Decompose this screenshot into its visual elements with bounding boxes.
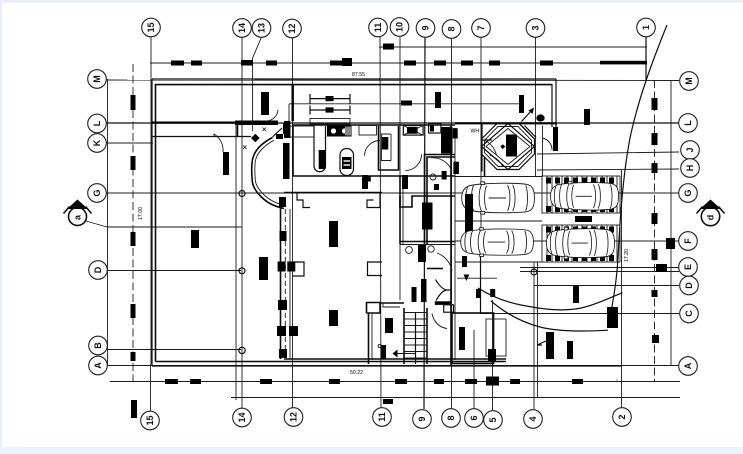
grid line B left (107, 349, 241, 351)
garden black bar 3 (573, 285, 579, 303)
pad 1 slats (547, 176, 617, 213)
door x marker 2 (263, 128, 267, 132)
car bay divider line (455, 176, 542, 178)
svg-text:H: H (685, 165, 695, 172)
garage divider bottom (293, 175, 455, 177)
pantry room outline (379, 126, 399, 170)
column K12 (276, 134, 283, 139)
wc door arc (437, 253, 452, 271)
svg-text:G: G (92, 189, 102, 196)
garden S curve lower (491, 301, 608, 331)
arc ledge (481, 139, 492, 141)
west wall vertical inner (289, 209, 291, 359)
bubble M right (680, 72, 699, 91)
grid line 7 vertical (480, 37, 482, 250)
octagon diamond inner (486, 129, 530, 165)
wc black small (418, 245, 426, 262)
kitchen counter left (290, 126, 314, 137)
interior column b (329, 310, 338, 326)
bubble A left (89, 356, 108, 375)
entry door cusp tick (447, 289, 451, 291)
column D line (259, 257, 268, 280)
west curved bay inner (255, 140, 285, 205)
bubble 10 top (390, 18, 409, 37)
wh black (453, 128, 458, 138)
pier arrow (464, 275, 470, 282)
bubble 3 top (526, 19, 545, 38)
pad 1 hatch top (546, 178, 614, 184)
grid line 9 vertical (424, 37, 425, 409)
step at D right (368, 262, 383, 276)
bay jamb diagonal (273, 128, 283, 137)
svg-text:C: C (684, 310, 694, 317)
west wall chunk 2 (280, 231, 287, 241)
bubble C right (680, 304, 699, 323)
garden black bar 4 (476, 289, 481, 298)
left bubble spine (107, 79, 109, 366)
entry porch steps (486, 319, 506, 356)
car B pier black (462, 256, 467, 267)
svg-text:12: 12 (287, 23, 297, 33)
stair left rail (403, 308, 405, 364)
svg-text:8: 8 (447, 26, 457, 31)
canopy rect above kitchen (310, 119, 350, 125)
pad edge door arc (543, 138, 553, 150)
garden black bar 1 (546, 332, 554, 359)
svg-text:E: E (683, 264, 693, 270)
bubble 5 bottom (484, 411, 503, 430)
west wall chunk pair D2 (287, 262, 295, 272)
bay door x marker (243, 146, 247, 150)
bubble F right (679, 232, 698, 251)
right dash-dot dashes (652, 98, 668, 343)
bottom road dash (383, 399, 393, 404)
bubble J right (681, 141, 700, 160)
svg-text:17.20: 17.20 (624, 249, 630, 262)
car C body (550, 181, 618, 211)
bubble L left (88, 114, 107, 133)
west wall chunk 4 (277, 326, 286, 336)
grid line A horizontal (107, 365, 679, 367)
bubble D left (89, 261, 108, 280)
bath walls (425, 155, 456, 245)
hall east wall (399, 176, 401, 244)
west wall glass line (284, 209, 286, 359)
entry door cusp arcs (436, 280, 447, 301)
bottom boundary dash-dot line (110, 381, 680, 383)
pad 1 hatch bottom (546, 206, 614, 212)
top area dash (401, 101, 412, 106)
grid line J horizontal (537, 152, 679, 154)
svg-text:A: A (93, 362, 103, 369)
bubble 12 bottom (284, 408, 303, 427)
stair black c (412, 287, 417, 302)
kitchen black bar (319, 150, 326, 169)
svg-text:14: 14 (237, 23, 247, 33)
ne door arc 2 (490, 155, 504, 167)
kitchen north wall (293, 124, 455, 126)
survey circle E-right (531, 269, 537, 275)
garden black bar 2 (567, 341, 573, 359)
car bay divider line 3 (455, 261, 542, 263)
east wall double (450, 125, 452, 365)
ne small diamond (500, 144, 505, 149)
bubble 8 bottom (442, 409, 461, 428)
survey circle pads (616, 379, 618, 381)
wc fixture 2 (428, 246, 434, 252)
bubble A right (679, 357, 698, 376)
section marker d (697, 200, 725, 226)
house bottom wall (284, 358, 506, 360)
stair black b (381, 345, 386, 359)
bubble 8 top (442, 20, 461, 39)
bubble 12 top (283, 19, 302, 38)
compound wall right-top return 2 (555, 79, 557, 127)
east wall inner (454, 128, 456, 360)
porch black b (488, 349, 496, 362)
laundry right wall (484, 157, 486, 177)
west wall chunk B (279, 349, 287, 358)
svg-text:13: 13 (257, 23, 267, 33)
bath fixture 3 (434, 184, 439, 190)
grid line 14 vertical (241, 37, 243, 408)
west wall chunk pair D (278, 262, 286, 272)
bubble G left (88, 184, 107, 203)
top datum line (379, 46, 647, 48)
living room top wall (284, 192, 382, 194)
bubble L right (679, 114, 698, 133)
left dash-dot vertical (132, 64, 134, 381)
wall segment 12 thick (292, 84, 294, 121)
stair arrow (415, 312, 417, 364)
porte-cochere chevrons (522, 126, 537, 139)
porch edge line (537, 262, 539, 397)
grid line H horizontal (537, 169, 679, 170)
kitchen peninsula counter (314, 126, 326, 172)
car A body (462, 182, 535, 214)
survey circle D (239, 268, 245, 274)
compound wall bottom inner (156, 361, 507, 363)
pantry black (382, 137, 388, 150)
garage side door arc (266, 110, 278, 121)
garden black bar 5 (490, 289, 495, 297)
svg-text:7: 7 (476, 25, 486, 30)
west wall chunk 3 (278, 300, 287, 310)
bubble H right (681, 159, 700, 178)
bubble 14 top (233, 19, 252, 38)
svg-text:8: 8 (446, 415, 456, 420)
car bay divider line 2 (455, 220, 542, 222)
garage top wall thick (235, 121, 278, 126)
top datum dash (383, 44, 394, 50)
west big column (283, 143, 290, 179)
svg-text:D: D (93, 266, 103, 273)
terrace edge line (457, 277, 497, 279)
wall stub above garage (261, 92, 269, 115)
svg-text:17.00: 17.00 (138, 207, 144, 220)
living room notch left (297, 193, 310, 208)
ne bar 1 (519, 95, 524, 113)
pad 2 slats (547, 225, 617, 262)
left dash-dot dashes (131, 95, 138, 418)
west curved bay outer (252, 138, 284, 209)
bottom dash-dot dashes (165, 377, 583, 386)
pergola bar 1 (310, 94, 350, 104)
svg-text:K: K (92, 139, 102, 146)
compound wall right-top return (551, 84, 553, 127)
bubble B left (89, 336, 108, 355)
big black NE wall (441, 127, 453, 154)
grid line E double (520, 271, 679, 273)
svg-text:15: 15 (145, 415, 155, 425)
courtyard door arc (214, 134, 223, 152)
grid line 5 bottom stem (492, 300, 494, 410)
bubble 11 top (369, 18, 388, 37)
wc fixtures (406, 247, 413, 254)
stair black d (421, 279, 427, 302)
svg-text:D: D (684, 282, 694, 289)
bubble M left (88, 70, 107, 89)
step at D (293, 262, 305, 276)
bubble 14 bottom (233, 408, 252, 427)
bath fixture 2 (442, 171, 447, 180)
grid line 13 vertical (253, 37, 262, 131)
kitchen sink unit (327, 126, 352, 137)
interior door arc lobby (432, 314, 447, 329)
bubble 2 bottom (613, 408, 632, 427)
svg-text:F: F (683, 238, 693, 244)
kitchen black sq bottom (364, 177, 371, 182)
grid line 1 vertical (645, 37, 647, 81)
bubble 9 top (416, 19, 435, 38)
living room notch right (367, 193, 380, 208)
bubble 1 top (637, 18, 656, 37)
svg-text:J: J (685, 147, 695, 152)
bay hinge diamond (251, 134, 260, 143)
svg-text:2: 2 (617, 414, 627, 419)
wc black 2 (362, 175, 368, 189)
ne bar 2 (553, 127, 558, 151)
car A pier (465, 194, 473, 240)
car B body (461, 228, 534, 257)
svg-text:4: 4 (528, 416, 538, 421)
stair direction arrow (393, 350, 398, 358)
bubble 13 top (252, 19, 271, 38)
grid line M horizontal (106, 79, 679, 82)
bubble 15 bottom (141, 411, 160, 430)
svg-text:M: M (92, 75, 102, 83)
stair circle marker (378, 344, 381, 347)
porch black a (459, 327, 465, 350)
black col 8-line bottom (459, 327, 465, 350)
stair treads (404, 313, 427, 359)
laundry black (453, 162, 459, 174)
grid line 15 bottom stem (150, 364, 152, 411)
svg-text:12: 12 (289, 412, 299, 422)
svg-text:5: 5 (488, 417, 498, 422)
pergola bar 2 (310, 106, 350, 115)
west wall chunk G (279, 197, 286, 207)
bubble D right (680, 276, 699, 295)
survey circle B (239, 347, 245, 353)
pantry C counter (382, 134, 392, 161)
bath door arc (431, 158, 452, 171)
top dash-dot dashes (171, 58, 647, 66)
wc black (402, 175, 408, 189)
svg-text:B: B (93, 342, 103, 349)
hall south wall 2 (400, 244, 455, 246)
setback line 14b (235, 121, 237, 400)
octagon diamond (482, 124, 535, 170)
black on 5 line (488, 349, 496, 362)
svg-text:WH: WH (471, 129, 480, 135)
grid line D left (107, 270, 241, 272)
pad 2 hatch bottom (546, 255, 614, 261)
foyer inner wall (372, 303, 400, 360)
column left of garage door (223, 152, 229, 175)
pad 1 outline (542, 176, 620, 213)
grid line F horizontal (455, 240, 679, 242)
compound wall top outer (152, 78, 556, 80)
right bubble spine (670, 81, 672, 366)
stair arrow line (398, 353, 416, 355)
svg-text:10: 10 (395, 22, 405, 32)
svg-text:11: 11 (377, 412, 387, 422)
svg-text:15: 15 (146, 22, 156, 32)
hall south wall (400, 241, 455, 243)
svg-text:L: L (683, 120, 693, 126)
octagon inner (485, 127, 532, 167)
octagon spa (482, 124, 535, 170)
grid line D right (534, 285, 679, 287)
kitchen door arc (365, 140, 381, 155)
property boundary arc (611, 25, 667, 312)
car D body (546, 227, 614, 259)
grid line 6 bottom stem (473, 330, 475, 409)
svg-text:L: L (92, 120, 102, 126)
bubble E right (679, 258, 698, 277)
wc bottom wall (427, 268, 443, 270)
grid line 15 vertical (150, 37, 152, 364)
compound wall top inner (155, 84, 552, 86)
grid line 12 vertical (292, 37, 294, 408)
garage left wall (237, 125, 239, 137)
pad edge upper line (542, 126, 544, 177)
bubble 11 bottom (373, 408, 392, 427)
svg-text:14: 14 (237, 412, 247, 422)
inter-pad dash (575, 216, 592, 222)
interior column a (329, 221, 338, 247)
stair right rail (426, 308, 428, 364)
grid line E horizontal (520, 267, 679, 269)
black door leaf (422, 203, 433, 230)
grid line 3 vertical (535, 37, 537, 176)
grid line L horizontal (106, 122, 679, 124)
bath fixtures (430, 174, 436, 180)
porte-cochere arrow (522, 108, 545, 122)
hall east wall 2 (402, 176, 404, 244)
column L12 (283, 123, 290, 134)
bubble K left (88, 134, 107, 153)
survey circle G (239, 191, 245, 197)
entry porch outline (452, 313, 494, 364)
kitchen counter right box (359, 126, 377, 136)
bottom road line (231, 397, 680, 399)
svg-text:3: 3 (531, 25, 541, 30)
F line block right (666, 238, 675, 249)
section marker a (64, 200, 243, 228)
svg-text:1: 1 (641, 25, 651, 30)
hall top wall (400, 196, 455, 207)
svg-text:A: A (683, 362, 693, 369)
pad 2 outline (542, 225, 620, 262)
grid line K horizontal (106, 142, 153, 144)
right dash-dot vertical (654, 80, 656, 381)
stair black a (385, 318, 393, 333)
compound wall bottom outer (152, 365, 622, 367)
courtyard column (191, 230, 199, 248)
ne bar 3 (584, 109, 590, 125)
top area bar 1 (435, 92, 441, 108)
svg-text:6: 6 (469, 415, 479, 420)
closet with X (403, 126, 423, 136)
ne room divider (481, 124, 483, 172)
west wall vertical (280, 207, 282, 359)
wall line K area (152, 136, 251, 138)
monument black C (607, 307, 618, 328)
foyer outline (367, 303, 405, 365)
hall door arc (406, 155, 422, 171)
garden S curve upper (478, 288, 623, 310)
svg-text:G: G (683, 189, 693, 196)
bubble 6 bottom (465, 409, 484, 428)
grid line G horizontal (106, 192, 679, 194)
svg-text:M: M (684, 77, 694, 85)
L wall heavy segment (455, 122, 557, 124)
bubble G right (679, 184, 698, 203)
entry lintel black (435, 301, 451, 305)
courtyard north wall heavy (152, 121, 236, 123)
svg-text:11: 11 (373, 23, 383, 33)
equipment box (429, 124, 441, 134)
bubble 9 bottom (413, 410, 432, 429)
grid line 11 vertical (380, 37, 381, 408)
top boundary dash-dot line (150, 62, 647, 64)
garage right wall (292, 125, 294, 176)
svg-text:50.22: 50.22 (350, 370, 363, 376)
bubble 4 bottom (524, 410, 543, 429)
upper thin line M-L (289, 103, 519, 105)
garden leader arrow (537, 341, 546, 345)
ne black block (506, 135, 517, 157)
upper line left tick (288, 104, 290, 124)
svg-text:87.55: 87.55 (352, 72, 365, 78)
grid line 8 vertical (451, 37, 453, 409)
compound wall left outer (151, 79, 153, 366)
bubble 7 top (472, 19, 491, 38)
west wall chunk 5 (289, 326, 298, 336)
bubble 15 top (142, 18, 161, 37)
porch popout top (444, 305, 454, 312)
kitchen island (340, 149, 354, 176)
grid line 2 vertical (621, 170, 623, 408)
garage corner column (284, 121, 290, 138)
svg-text:d: d (706, 215, 716, 221)
svg-text:9: 9 (421, 25, 431, 30)
ne door arc 1 (483, 140, 497, 155)
pad 2 hatch top (546, 227, 614, 233)
compound wall left inner (155, 84, 157, 362)
